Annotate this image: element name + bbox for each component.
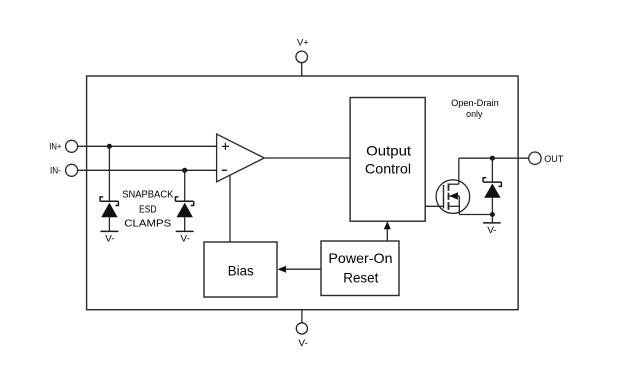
transistor Q1 (open-drain NMOS) [436, 158, 470, 214]
svg-text:Power-On: Power-On [328, 250, 392, 266]
wire V+ lead [301, 63, 303, 76]
svg-text:Reset: Reset [343, 270, 378, 286]
wire D3 to V- [491, 198, 493, 223]
label Open-Drain only [451, 98, 499, 120]
ESD snapback diode D1 [100, 197, 118, 217]
wire MOSFET drain to OUT [459, 157, 529, 159]
wire IN- to comparator [78, 169, 217, 171]
label SNAPBACK ESD CLAMPS [122, 189, 173, 230]
terminal IN- [66, 164, 78, 176]
node junction on source line [490, 212, 495, 217]
wire V- lead [301, 310, 303, 323]
node junction on IN+ line [107, 144, 112, 149]
wire Power-On Reset to Bias [285, 268, 321, 270]
svg-text:IN-: IN- [50, 165, 61, 176]
wire Output Control to MOSFET gate [425, 205, 443, 207]
output snapback diode D3 [483, 178, 501, 198]
svg-text:Control: Control [365, 161, 411, 177]
svg-text:CLAMPS: CLAMPS [124, 217, 171, 229]
svg-text:IN+: IN+ [49, 141, 62, 152]
block Bias [204, 242, 277, 297]
V- rail symbol for D1 [100, 230, 118, 232]
svg-text:V-: V- [180, 234, 190, 245]
comparator - input marking [222, 169, 227, 171]
arrowhead into Output Control [384, 221, 391, 229]
wire D1 to V- [108, 217, 110, 231]
svg-text:Bias: Bias [228, 262, 254, 278]
svg-text:Output: Output [366, 142, 411, 158]
node junction on OUT line [490, 156, 495, 161]
wire OUT line to clamp diode D3 [491, 158, 493, 182]
ESD diode D1 wire from IN+ [108, 146, 110, 201]
IC boundary box [87, 76, 518, 310]
svg-text:SNAPBACK: SNAPBACK [122, 189, 173, 201]
comparator + input marking [222, 143, 229, 150]
label Output Control [365, 142, 411, 176]
svg-text:V-: V- [105, 234, 115, 245]
V- rail symbol for D3 [483, 222, 501, 224]
svg-text:only: only [466, 109, 483, 120]
wire MOSFET source to V- [459, 214, 492, 216]
terminal V+ [296, 51, 308, 63]
wire comparator bottom to Bias [229, 175, 231, 242]
block Output Control [350, 98, 425, 222]
ESD diode D2 wire from IN- [184, 170, 186, 201]
svg-text:V-: V- [298, 338, 308, 349]
arrowhead into Bias [278, 266, 286, 273]
ESD snapback diode D2 [175, 197, 193, 217]
wire D2 to V- [184, 217, 186, 231]
terminal V- [296, 323, 307, 334]
node junction on IN- line [182, 168, 187, 173]
svg-text:V-: V- [487, 225, 497, 236]
svg-text:Open-Drain: Open-Drain [451, 98, 499, 109]
wire comparator output to Output Control [264, 157, 350, 159]
terminal IN+ [66, 140, 78, 152]
svg-text:ESD: ESD [139, 203, 157, 215]
wire Power-On Reset to Output Control [386, 229, 388, 242]
block Power-On Reset [321, 241, 399, 296]
svg-text:V+: V+ [297, 38, 309, 49]
wire IN+ to comparator [78, 145, 217, 147]
svg-text:OUT: OUT [544, 154, 563, 165]
label Power-On Reset [328, 250, 392, 286]
V- rail symbol for D2 [176, 230, 194, 232]
comparator U1 [217, 134, 265, 182]
terminal OUT [529, 152, 541, 164]
